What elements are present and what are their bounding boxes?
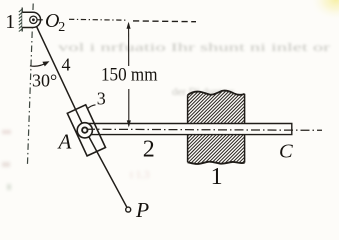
svg-text:vol i nrfuatio Ihr shunt: vol i nrfuatio Ihr shunt ni inlet or — [58, 40, 330, 54]
angle arc 30 degrees — [30, 62, 48, 66]
guide block 1 outline — [188, 91, 245, 164]
eye at A — [77, 123, 92, 138]
bar centerline — [86, 129, 322, 130]
svg-text:A: A — [57, 130, 72, 154]
svg-text:O: O — [45, 10, 59, 32]
short tick right of pin — [37, 19, 43, 21]
bar 2 (white filled, no left edge) — [85, 124, 292, 135]
guide block 1 hatching — [108, 65, 339, 168]
svg-text:1: 1 — [211, 164, 223, 190]
pin O2 center dot — [32, 18, 35, 21]
pivot bracket — [22, 12, 40, 27]
leader for 3 — [87, 105, 95, 109]
slider block 3 outline — [67, 105, 105, 156]
svg-text:2: 2 — [58, 20, 65, 35]
svg-text:P: P — [135, 198, 149, 222]
svg-text:150 mm: 150 mm — [101, 65, 158, 86]
horizontal centerline from O2 — [69, 18, 128, 21]
svg-text:1: 1 — [5, 11, 15, 33]
svg-text:t 1.3: t 1.3 — [130, 169, 150, 181]
pin A — [82, 127, 87, 132]
svg-text:2: 2 — [143, 137, 155, 163]
vertical centerline through O2 — [27, 4, 33, 167]
svg-text:C: C — [279, 141, 293, 163]
dimension line (150 mm) lower segment — [128, 89, 130, 126]
dashed line right of dimension — [133, 20, 196, 23]
dimension arrow up — [127, 22, 131, 29]
point P circle — [126, 207, 131, 212]
pin O2 — [30, 16, 37, 23]
dimension line (150 mm) upper segment — [128, 24, 130, 67]
wall hatching at O2 — [19, 9, 23, 32]
svg-text:30°: 30° — [32, 71, 57, 91]
svg-text:3: 3 — [97, 88, 106, 108]
link 4 (line O2 to P through A) — [33, 20, 128, 210]
dimension arrow down — [127, 120, 131, 127]
svg-text:4: 4 — [62, 55, 71, 75]
bleed-through text row (faint) — [58, 40, 330, 98]
wall line — [21, 8, 23, 32]
angle arc arrowhead — [42, 61, 49, 66]
